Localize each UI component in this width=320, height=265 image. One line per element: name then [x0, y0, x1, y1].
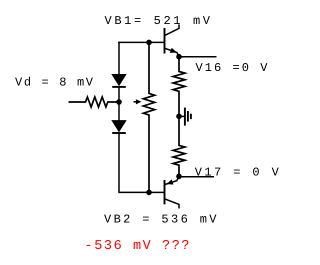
node ground junction — [176, 114, 182, 120]
wire left rail upper — [118, 42, 120, 75]
transistor Q1 NPN — [165, 24, 180, 56]
svg-text:Vd = 8 mV: Vd = 8 mV — [15, 76, 94, 90]
current direction arrow — [134, 99, 142, 104]
resistor R1 horizontal — [69, 97, 120, 107]
resistor R2 vertical middle — [143, 42, 154, 192]
svg-text:V17 = 0 V: V17 = 0 V — [195, 166, 280, 180]
wire V16 stub — [179, 56, 217, 58]
wire bottom horizontal — [149, 191, 165, 193]
node emitter Q1 / V16 — [176, 54, 182, 60]
svg-text:VB1= 521 mV: VB1= 521 mV — [105, 14, 211, 28]
resistor R3 (V16 branch) — [173, 57, 185, 117]
transistor Q2 PNP — [165, 176, 180, 208]
node junction bottom — [146, 190, 152, 196]
wire V17 stub — [179, 176, 214, 178]
svg-text:V16 =0 V: V16 =0 V — [196, 61, 269, 75]
node emitter Q2 / V17 — [176, 174, 182, 180]
ground — [179, 108, 191, 126]
node junction diodes — [116, 99, 122, 105]
wire top horizontal — [118, 41, 164, 43]
diode D2 — [112, 121, 126, 133]
wire between diodes — [118, 87, 120, 121]
wire left rail lower — [118, 133, 149, 193]
diode D1 — [112, 75, 126, 87]
resistor R4 (V17 branch) — [173, 116, 185, 176]
node junction top — [146, 40, 152, 46]
svg-text:-536 mV ???: -536 mV ??? — [85, 239, 190, 254]
